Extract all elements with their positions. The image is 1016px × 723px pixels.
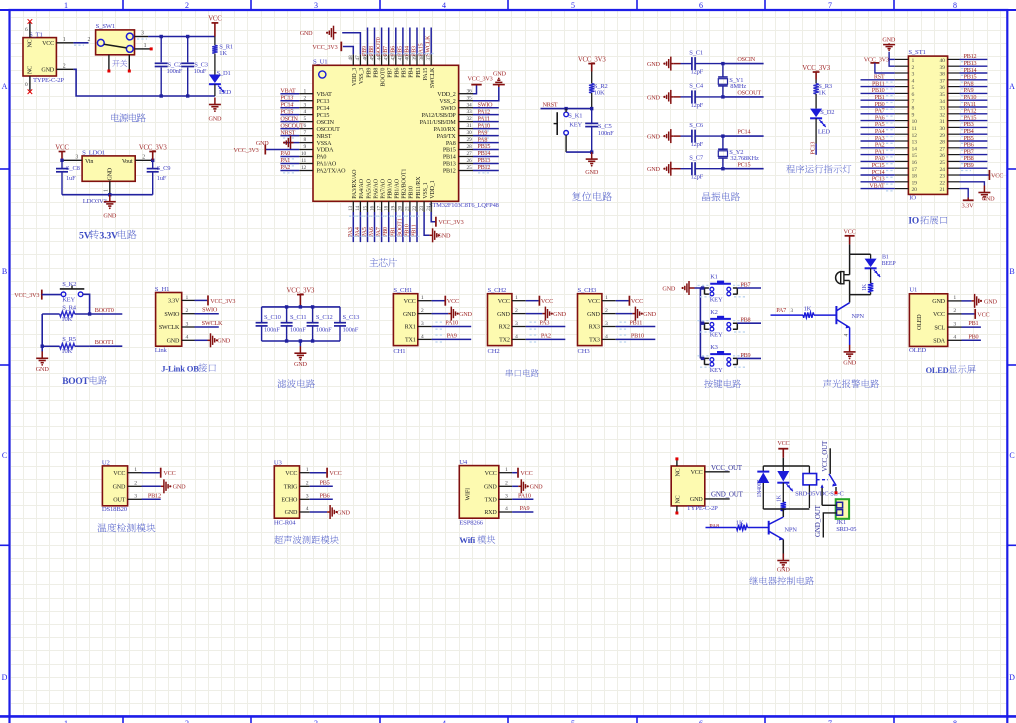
svg-text:PA1: PA1	[280, 158, 290, 164]
pin U1 11 PA1/AO	[299, 163, 313, 165]
wire	[861, 140, 895, 142]
wire	[960, 167, 988, 169]
svg-text:0: 0	[25, 82, 28, 88]
pin S_CH1 2	[418, 313, 432, 315]
caption fuwei dianlu	[572, 192, 612, 201]
svg-text:40: 40	[940, 58, 946, 64]
wire	[262, 340, 340, 342]
wire	[861, 188, 895, 190]
wire	[960, 147, 988, 149]
svg-text:9: 9	[912, 112, 915, 118]
wire	[695, 168, 723, 170]
header S_CH1	[393, 294, 417, 346]
svg-text:U3: U3	[274, 459, 283, 466]
svg-text:VCC: VCC	[588, 299, 600, 305]
svg-text:37: 37	[940, 78, 946, 84]
svg-text:RX3: RX3	[589, 325, 600, 331]
svg-text:PB5: PB5	[320, 479, 330, 486]
svg-text:PB6: PB6	[320, 492, 330, 499]
pin U1 46 PB9	[367, 54, 369, 65]
svg-text:PB13: PB13	[443, 162, 456, 168]
svg-text:PB3: PB3	[416, 68, 422, 78]
svg-text:3: 3	[314, 1, 318, 10]
pin U3 4	[300, 511, 310, 513]
wire	[142, 498, 161, 500]
svg-text:VCC_3V3: VCC_3V3	[578, 56, 606, 63]
svg-text:GND: GND	[167, 339, 180, 345]
pin U4 4	[499, 511, 512, 513]
svg-text:NPN: NPN	[852, 313, 865, 320]
wire jk1 pin2 gnd_out	[823, 513, 836, 538]
svg-text:VCC_OUT: VCC_OUT	[711, 464, 743, 472]
svg-text:2: 2	[515, 308, 518, 314]
svg-text:1: 1	[303, 88, 306, 94]
svg-text:10: 10	[912, 119, 918, 125]
wire	[962, 300, 972, 302]
wire	[187, 37, 189, 63]
svg-text:S_K1: S_K1	[568, 113, 582, 120]
svg-text:PC14: PC14	[280, 102, 293, 108]
svg-text:12pF: 12pF	[691, 102, 704, 109]
svg-text:VCC: VCC	[208, 16, 222, 23]
wire	[473, 135, 499, 137]
pin S_CH1 3	[418, 326, 432, 328]
svg-text:2: 2	[142, 154, 145, 160]
svg-text:3: 3	[141, 31, 144, 37]
LED relay	[782, 466, 784, 471]
svg-text:10uF: 10uF	[194, 68, 207, 75]
svg-text:32: 32	[467, 116, 473, 122]
svg-text:10: 10	[301, 151, 307, 157]
svg-text:2: 2	[953, 308, 956, 314]
svg-text:RX1: RX1	[405, 325, 416, 331]
wire	[160, 68, 162, 97]
pin ST1 14	[895, 147, 909, 149]
svg-text:SWCLK: SWCLK	[426, 35, 432, 56]
wire	[430, 28, 432, 55]
svg-text:SWCLK: SWCLK	[202, 320, 223, 327]
svg-text:PB2/BOOT1: PB2/BOOT1	[402, 169, 408, 199]
svg-text:30: 30	[467, 130, 473, 136]
svg-text:PA3: PA3	[348, 227, 354, 237]
svg-text:C: C	[1009, 451, 1014, 460]
svg-text:GND: GND	[690, 497, 703, 503]
svg-text:6: 6	[699, 1, 703, 10]
svg-text:VCC_3V3: VCC_3V3	[210, 298, 235, 305]
svg-text:21: 21	[405, 205, 411, 211]
svg-text:VCC_3V3: VCC_3V3	[14, 292, 39, 299]
svg-text:1: 1	[605, 295, 608, 301]
wire	[737, 322, 761, 324]
svg-text:12: 12	[912, 133, 918, 139]
svg-text:PB11: PB11	[872, 81, 885, 87]
pin U1 6 OSCOUT	[299, 128, 313, 130]
pin S_CH3 2	[602, 313, 616, 315]
wire	[409, 28, 411, 55]
svg-text:3: 3	[134, 494, 137, 500]
svg-text:PA4: PA4	[355, 227, 361, 237]
svg-text:B: B	[1009, 267, 1014, 276]
svg-text:PB10: PB10	[872, 88, 885, 94]
svg-text:8: 8	[953, 1, 957, 10]
svg-text:9: 9	[303, 144, 306, 150]
svg-text:D: D	[2, 673, 8, 682]
svg-text:GND: GND	[294, 361, 308, 368]
pin S_CH1 4	[418, 338, 432, 340]
svg-text:K3: K3	[710, 344, 718, 351]
svg-text:NC: NC	[676, 468, 682, 476]
svg-text:GND: GND	[173, 484, 187, 491]
wire	[187, 68, 189, 97]
pin typec2 VCC out	[705, 471, 730, 473]
svg-text:PA9/TX: PA9/TX	[437, 134, 457, 140]
svg-text:SWIO: SWIO	[164, 312, 180, 318]
svg-text:VCC: VCC	[541, 298, 553, 305]
caption chuankou dianlu	[506, 369, 539, 377]
svg-text:15: 15	[362, 205, 368, 211]
svg-text:24: 24	[940, 167, 946, 173]
svg-text:2: 2	[134, 481, 137, 487]
wire	[152, 172, 154, 195]
pin U1 13 PA3/RX/AO	[352, 201, 354, 212]
wire	[960, 113, 988, 115]
pin U1 31 PA10/RX	[459, 128, 473, 130]
svg-text:PB11/RX: PB11/RX	[416, 176, 422, 199]
svg-text:12: 12	[301, 165, 307, 171]
svg-text:20: 20	[912, 187, 918, 193]
svg-text:1uF: 1uF	[66, 175, 76, 182]
svg-text:KEY: KEY	[62, 297, 75, 304]
wire	[861, 86, 895, 88]
pin U1 19 PB1/AO	[395, 201, 397, 212]
pin U1 8 VSSA	[299, 142, 313, 144]
wire	[815, 144, 817, 155]
svg-text:2: 2	[912, 65, 915, 71]
pin typec2 top	[676, 460, 678, 466]
header S_ST1 IO 40pin	[908, 56, 947, 194]
svg-text:PB15: PB15	[443, 148, 456, 154]
wire	[616, 300, 629, 302]
svg-text:D: D	[1009, 673, 1015, 682]
svg-text:VSSA: VSSA	[317, 141, 333, 147]
svg-text:VDD_3: VDD_3	[352, 68, 358, 86]
wire	[962, 313, 975, 315]
pin ST1 16	[895, 160, 909, 162]
wire	[695, 96, 723, 98]
pin ST1 32 right	[948, 113, 960, 115]
svg-text:34: 34	[940, 99, 946, 105]
pin U1 33 PA12/USB/DP	[459, 114, 473, 116]
svg-text:3: 3	[303, 102, 306, 108]
svg-text:GND: GND	[982, 196, 996, 203]
wire	[591, 109, 593, 124]
svg-text:PB12: PB12	[443, 169, 456, 175]
pin U1 44 BOOT0	[381, 54, 383, 65]
pin U1 23 VSS_1	[423, 201, 425, 212]
svg-text:U2: U2	[102, 459, 110, 466]
wire	[473, 163, 499, 165]
svg-text:35: 35	[467, 95, 473, 101]
svg-text:S_C11: S_C11	[290, 314, 306, 321]
svg-text:15: 15	[912, 153, 918, 159]
svg-text:1: 1	[515, 295, 518, 301]
pin U1 3 PC14	[299, 107, 313, 109]
svg-text:17: 17	[376, 205, 382, 211]
pin U1 25 PB12	[459, 170, 473, 172]
LED S_D2	[810, 109, 822, 118]
svg-text:PB0: PB0	[968, 333, 978, 340]
svg-text:PB14: PB14	[443, 155, 456, 161]
svg-text:31: 31	[467, 123, 473, 129]
svg-text:PA2: PA2	[875, 143, 885, 149]
svg-text:S_LDO1: S_LDO1	[82, 149, 105, 156]
pin LDO1 3 Vin	[62, 159, 82, 161]
pin U1 2 PC13	[299, 100, 313, 102]
svg-text:GND: GND	[585, 169, 599, 176]
svg-text:25: 25	[940, 160, 946, 166]
pin U1 oled 2	[948, 313, 962, 315]
svg-text:PB7: PB7	[383, 46, 389, 56]
svg-text:S_C12: S_C12	[316, 314, 333, 321]
resistor S_R3 1K	[815, 80, 817, 84]
svg-text:7: 7	[912, 99, 915, 105]
wire alarm top node	[850, 253, 871, 255]
display U1 OLED	[909, 294, 947, 347]
wire	[861, 167, 895, 169]
ground GND S_C6	[663, 129, 674, 143]
wire	[339, 326, 341, 341]
wire	[280, 135, 299, 137]
connector TYPE-C-2P relay	[671, 466, 705, 506]
wire	[861, 120, 895, 122]
svg-text:PA0: PA0	[317, 155, 327, 161]
svg-text:PB9: PB9	[362, 46, 368, 56]
pin H1 2	[182, 313, 195, 315]
pin U1 20 PB2/BOOT1	[402, 201, 404, 212]
svg-text:VCC_3V3: VCC_3V3	[312, 44, 337, 51]
svg-text:S_K2: S_K2	[62, 281, 76, 288]
pin ST1 6	[895, 92, 909, 94]
svg-text:100nF: 100nF	[598, 130, 614, 137]
svg-text:27: 27	[467, 151, 473, 157]
pin T1 2 GND	[56, 68, 73, 70]
svg-text:GND: GND	[337, 509, 351, 516]
svg-text:4: 4	[912, 78, 915, 84]
pin U1 32 PA11/USB/DM	[459, 121, 473, 123]
wire	[342, 33, 360, 55]
pin U1 9 VDDA	[299, 149, 313, 151]
pin ST1 11	[895, 126, 909, 128]
svg-text:BOOT1: BOOT1	[397, 218, 403, 237]
caption program run indicator	[786, 165, 851, 174]
wire	[432, 300, 445, 302]
wire	[374, 28, 376, 55]
pin U1 17 PA7/AO	[381, 201, 383, 212]
svg-text:PA6/AO: PA6/AO	[373, 178, 379, 198]
svg-text:1uF: 1uF	[157, 175, 167, 182]
svg-text:PC15: PC15	[872, 163, 885, 169]
caption lvbo dianlu	[277, 379, 315, 388]
pin ST1 9	[895, 113, 909, 115]
svg-text:5: 5	[912, 85, 915, 91]
wire	[395, 28, 397, 55]
wire	[62, 194, 153, 196]
svg-text:OLED: OLED	[909, 347, 926, 354]
svg-text:PA5/AO: PA5/AO	[366, 178, 372, 198]
wire	[388, 212, 390, 242]
svg-text:GND: GND	[647, 166, 661, 173]
svg-text:VCC: VCC	[777, 440, 789, 447]
svg-text:1: 1	[186, 295, 189, 301]
wire	[695, 288, 701, 358]
wire	[142, 485, 161, 487]
wire	[473, 170, 499, 172]
pin U1 47 VSS_3	[359, 54, 361, 65]
svg-text:PC13: PC13	[811, 142, 817, 155]
svg-text:PA7/AO: PA7/AO	[380, 178, 386, 198]
svg-text:18: 18	[384, 205, 390, 211]
svg-text:3.3V: 3.3V	[962, 202, 975, 209]
wire	[861, 174, 895, 176]
pin U1 22 PB11/RX	[416, 201, 418, 212]
pin U1 26 PB13	[459, 163, 473, 165]
ground GND reset	[591, 152, 593, 159]
wire	[280, 156, 299, 158]
pin U1 24 VDD_1	[430, 201, 432, 212]
wire	[261, 326, 263, 341]
svg-text:36: 36	[467, 88, 473, 94]
svg-text:100nF: 100nF	[316, 327, 332, 334]
svg-text:7: 7	[303, 130, 306, 136]
ground GND relay	[782, 554, 784, 561]
svg-text:PB9: PB9	[964, 162, 974, 169]
wire	[700, 322, 704, 324]
svg-text:1: 1	[144, 43, 147, 49]
svg-text:23: 23	[419, 205, 425, 211]
svg-text:3: 3	[505, 494, 508, 500]
pin U3 1	[300, 472, 310, 474]
pin ST1 22 right	[948, 181, 960, 183]
svg-text:OSCIN: OSCIN	[737, 56, 755, 63]
svg-text:PA0: PA0	[280, 151, 290, 157]
wire	[889, 52, 895, 66]
svg-text:GND: GND	[497, 312, 510, 318]
svg-text:GND: GND	[493, 70, 507, 77]
svg-text:8: 8	[912, 106, 915, 112]
svg-text:VCC_3V3: VCC_3V3	[438, 219, 463, 226]
svg-text:PA8: PA8	[709, 523, 719, 530]
pin U1 30 PA9/TX	[459, 135, 473, 137]
svg-text:36: 36	[940, 85, 946, 91]
svg-text:29: 29	[467, 137, 473, 143]
pin ST1 3	[895, 72, 909, 74]
svg-text:GND: GND	[777, 566, 791, 573]
svg-text:1K: 1K	[804, 305, 812, 312]
wire	[695, 135, 723, 137]
svg-text:PB6: PB6	[390, 46, 396, 56]
svg-text:VCC_3V3: VCC_3V3	[287, 287, 315, 294]
svg-text:7: 7	[828, 1, 832, 10]
compile marks bottom	[349, 215, 357, 217]
wire	[61, 160, 63, 168]
svg-text:PB11: PB11	[629, 320, 642, 327]
svg-text:VCC_3V3: VCC_3V3	[139, 144, 167, 151]
svg-text:IO: IO	[909, 194, 916, 201]
svg-text:16: 16	[369, 205, 375, 211]
wire	[541, 108, 592, 110]
svg-text:GND: GND	[403, 312, 416, 318]
svg-text:PA11/USB/DM: PA11/USB/DM	[420, 120, 457, 126]
wire	[526, 313, 543, 315]
wire	[566, 151, 592, 153]
wire	[339, 307, 341, 323]
svg-text:S_U1: S_U1	[313, 59, 327, 66]
svg-text:B: B	[2, 267, 7, 276]
svg-text:GND: GND	[36, 366, 50, 373]
svg-text:5: 5	[571, 719, 575, 723]
svg-text:S_C10: S_C10	[264, 314, 281, 321]
svg-text:CH3: CH3	[578, 348, 591, 355]
svg-text:S_CH3: S_CH3	[578, 287, 598, 294]
svg-text:PA2: PA2	[280, 165, 290, 171]
pin U1 5 OSCIN	[299, 121, 313, 123]
pin U1 39 PB3	[416, 54, 418, 65]
wire	[41, 314, 43, 352]
svg-text:2: 2	[421, 308, 424, 314]
svg-text:PA5: PA5	[875, 122, 885, 128]
wire	[473, 156, 499, 158]
wire	[343, 47, 353, 55]
svg-text:2: 2	[63, 63, 66, 69]
crystal S_Y2 32.768KHz	[722, 136, 724, 149]
wire alarm bottom node	[849, 280, 851, 294]
svg-text:1: 1	[134, 467, 137, 473]
wire	[861, 126, 895, 128]
svg-text:100nF: 100nF	[264, 327, 280, 334]
svg-text:1K: 1K	[219, 50, 227, 57]
wire	[723, 135, 764, 137]
pin S_CH2 2	[512, 313, 526, 315]
svg-text:2: 2	[605, 308, 608, 314]
pin U1 oled 3	[948, 326, 962, 328]
svg-text:1: 1	[306, 467, 309, 473]
ground GND S_C1	[663, 57, 674, 71]
svg-text:PA10: PA10	[478, 123, 491, 129]
pin U1 oled 1	[948, 300, 962, 302]
svg-text:VBAT: VBAT	[280, 88, 296, 94]
pin ST1 15	[895, 154, 909, 156]
svg-text:3: 3	[75, 154, 78, 160]
pin ST1 19	[895, 181, 909, 183]
wire	[512, 511, 533, 513]
svg-text:A: A	[1009, 82, 1015, 91]
pin U3 2	[300, 485, 310, 487]
svg-text:S_D1: S_D1	[217, 70, 231, 77]
svg-text:LED: LED	[219, 89, 232, 96]
pin U1 oled 4	[948, 339, 962, 341]
resistor relay base 1K	[706, 527, 737, 529]
svg-text:VCC: VCC	[404, 299, 416, 305]
pin ST1 12	[895, 133, 909, 135]
pin ST1 35 right	[948, 92, 960, 94]
svg-text:PC15: PC15	[280, 109, 293, 115]
pin T1 1 VCC	[56, 42, 73, 44]
wire	[367, 28, 369, 55]
svg-text:VCC: VCC	[113, 471, 125, 477]
svg-text:2: 2	[306, 481, 309, 487]
connector JK1 SRD-05	[836, 499, 849, 519]
wire VCC rail top	[137, 38, 147, 40]
